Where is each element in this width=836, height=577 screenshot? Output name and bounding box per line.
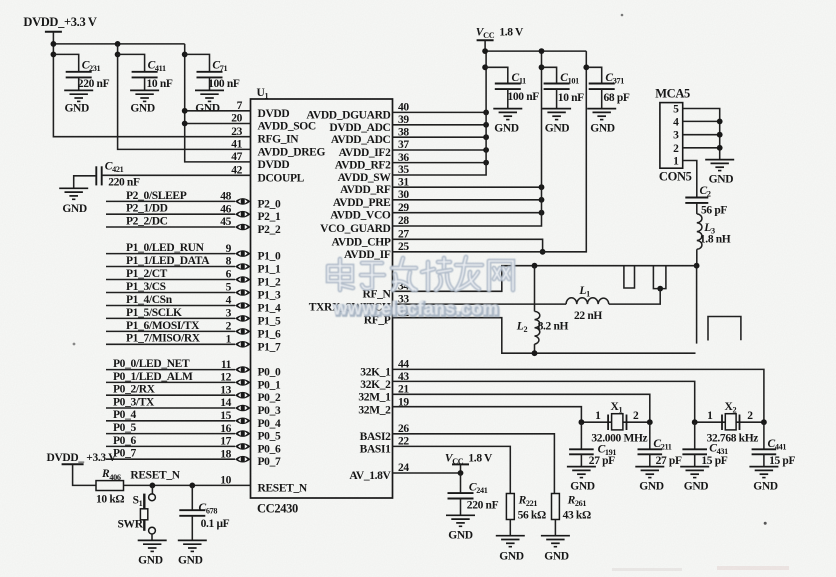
wire net P2_2/DC — [106, 226, 235, 228]
bidirectional pin arrow P1_2 — [235, 276, 251, 283]
junction C411 top lead — [115, 52, 121, 58]
capacitor C2 — [685, 198, 708, 214]
junction pin 3 — [717, 132, 723, 138]
ground under R261 — [541, 536, 570, 563]
power symbol Vcc 1.8V bar — [477, 39, 494, 41]
ground under C678 — [178, 540, 207, 566]
wire net P1_3/CS — [106, 292, 235, 294]
capacitor C421 — [96, 166, 101, 185]
ground under C101 — [542, 109, 571, 135]
junction RF node at L3 — [694, 263, 700, 269]
wire RESET_N net — [124, 484, 251, 486]
wire branch to pins 7 20 47 — [185, 44, 251, 162]
junction X1 pin 1 — [579, 419, 585, 425]
wire DVDD riser and feed to pin 23 — [53, 32, 250, 137]
bidirectional pin arrow P0_4 — [235, 418, 251, 425]
bidirectional pin arrow P2_1 — [235, 211, 251, 218]
junction rail A at C411 branch — [115, 41, 121, 47]
bidirectional pin arrow P0_7 — [235, 456, 251, 463]
scan speck — [73, 343, 76, 346]
wire switch to ground — [151, 534, 153, 540]
capacitor C231 — [53, 54, 91, 90]
junction C231 top lead — [51, 52, 57, 58]
wire net P1_7/MISO/RX — [106, 343, 235, 345]
junction Vcc rail at vertical A — [482, 48, 488, 54]
ground at C421 — [59, 188, 88, 215]
junction C371 lead on vertical C — [583, 64, 589, 70]
wire pin 25 and vertical C — [393, 51, 587, 252]
pin names AVDD right side — [306, 109, 391, 260]
wire net P0_0/LED_NET — [106, 369, 235, 371]
ground under C411 — [130, 90, 159, 114]
junction pin 27 on pin 25 wire — [540, 249, 546, 255]
junction pin 39 — [483, 122, 489, 128]
connector MCA5 CON5 — [660, 103, 683, 169]
wire CON5 pin 4 — [683, 120, 720, 122]
capacitor C241 — [448, 473, 474, 515]
bidirectional pin arrow P1_7 — [235, 341, 251, 348]
wire pin 36 — [393, 162, 487, 164]
resistor R406 — [96, 481, 124, 491]
wire net P1_2/CT — [106, 279, 235, 281]
ground under C191 — [567, 467, 596, 493]
watermark url text — [333, 299, 500, 320]
junction C101 lead on vertical B — [539, 64, 545, 70]
capacitor C411 — [118, 54, 158, 90]
wire RF_N pin 34 to top rail — [393, 266, 697, 292]
junction L2 bottom — [532, 350, 538, 356]
capacitor C191 — [569, 422, 594, 466]
junction pin 37 — [483, 147, 489, 153]
ground under R221 — [496, 536, 525, 563]
wire net P0_1/LED_ALM — [106, 381, 235, 383]
wire pin 37 — [393, 149, 487, 151]
capacitor C211 — [638, 422, 663, 466]
bidirectional pin arrow P1_6 — [235, 328, 251, 335]
wire 32K_1 pin 44 to X2 pin 2 — [393, 369, 764, 422]
bidirectional pin arrow P1_3 — [235, 289, 251, 296]
junction AV_1.8V node — [458, 470, 464, 476]
junction pin 2 — [717, 145, 723, 151]
wire C421 to pin 42 DCOUPL — [102, 174, 251, 176]
crystal X2 — [695, 414, 764, 430]
power symbol DVDD +3.3V bar at reset — [62, 463, 84, 465]
wire net P0_3/TX — [106, 407, 235, 409]
wire TXRX pin 33 to L1 — [393, 303, 567, 305]
wire net P2_0/SLEEP — [106, 200, 235, 202]
wire net P0_4 — [106, 420, 235, 422]
scan speck — [621, 14, 624, 17]
wire net P0_6 — [106, 445, 235, 447]
bidirectional pin arrow P1_5 — [235, 315, 251, 322]
resistor R261 — [552, 494, 560, 520]
junction X2 pin 2 — [761, 419, 767, 425]
wire L3 to RF node — [696, 249, 698, 265]
wire AV_1.8V pin 24 — [393, 472, 461, 474]
wire CON5 pin 1 to C2 — [683, 161, 697, 198]
wire net P0_2/RX — [106, 394, 235, 396]
wire 32M_2 pin 19 to X1 pin 1 — [393, 407, 582, 423]
bidirectional pin arrow P0_5 — [235, 430, 251, 437]
wire net P1_4/CSn — [106, 305, 235, 307]
watermark chinese characters — [328, 257, 513, 290]
bidirectional pin arrow P0_1 — [235, 379, 251, 386]
scan streak — [612, 568, 682, 571]
bidirectional pin arrow P2_2 — [235, 224, 251, 231]
wire C421 left lead to ground — [74, 176, 97, 189]
bidirectional pin arrow P1_1 — [235, 263, 251, 270]
wire to switch S1 — [151, 485, 153, 493]
wire net P2_1/DD — [106, 213, 235, 215]
junction X1 pin 2 — [647, 419, 653, 425]
bidirectional pin arrow P2_0 — [235, 198, 251, 205]
power symbol DVDD +3.3V bar — [45, 31, 62, 33]
capacitor C11 — [485, 67, 521, 108]
wire 32M_1 pin 21 to X1 pin 2 — [393, 394, 650, 422]
wire balun stub U1 shape — [624, 266, 635, 288]
scan speck — [764, 522, 767, 525]
junction Vcc rail at vertical B — [539, 48, 545, 54]
connector pin numbers 5 4 3 2 1 — [673, 104, 679, 168]
IC U1 CC2430 body — [251, 99, 393, 498]
wire RF_P pin 32 bottom rail — [393, 318, 696, 354]
junction X2 pin 1 — [692, 419, 698, 425]
wire balun stub U2 shape — [653, 266, 666, 289]
wire net P1_5/SCLK — [106, 317, 235, 319]
wire pin 35 and vertical A — [393, 51, 487, 175]
junction C11 lead on vertical A — [482, 64, 488, 70]
junction pin 4 — [717, 119, 723, 125]
junction pin 40 — [483, 110, 489, 116]
pin numbers 40 39 38 37 36 35 31 30 29 28 27 25 — [398, 102, 409, 253]
ground under C231 — [64, 90, 93, 114]
capacitor C441 — [752, 422, 777, 466]
wire pin 38 — [393, 136, 487, 138]
ground under C371 — [587, 109, 616, 135]
wire pin 29 — [393, 212, 542, 214]
wire pin 20 stub — [185, 123, 251, 125]
inductor L1 — [566, 298, 609, 304]
inductor L3 — [697, 214, 702, 249]
wire pin 27 jog down — [393, 239, 543, 252]
wire power to R406 — [73, 464, 96, 485]
ground under C241 — [446, 515, 475, 541]
bidirectional pin arrow P0_6 — [235, 443, 251, 450]
wire CON5 pin 5 to ground vertical — [683, 109, 720, 160]
wire R221 to ground — [509, 520, 511, 536]
wire CON5 pin 3 — [683, 134, 720, 136]
bidirectional pin arrow P0_0 — [235, 366, 251, 373]
ground under C71 — [195, 90, 224, 114]
ground at CON5 — [705, 160, 734, 186]
junction pin 20 stub — [182, 121, 188, 127]
wire pin 7 stub — [185, 110, 251, 112]
junction pin 36 — [483, 160, 489, 166]
wire antenna bracket shape — [708, 317, 741, 341]
wire CON5 pin 2 — [683, 147, 720, 149]
wire R261 to ground — [554, 520, 556, 536]
wire DVDD rail A — [53, 43, 184, 45]
wire pin 31 to vertical B — [393, 186, 542, 188]
wire net P0_5 — [106, 433, 235, 435]
capacitor C431 — [682, 422, 707, 466]
junction at switch S1 — [150, 483, 156, 489]
capacitor C101 — [542, 67, 570, 108]
wire Vcc riser at AV pin — [460, 464, 462, 473]
scan streak — [717, 566, 789, 570]
capacitor C71 — [185, 54, 223, 90]
ground under C441 — [749, 467, 778, 493]
junction pin 29 — [539, 210, 545, 216]
power symbol Vcc bar at AV pin — [452, 463, 469, 465]
wire BASI1 pin 22 to R221 — [393, 446, 511, 493]
wire net P1_1/LED_DATA — [106, 266, 235, 268]
wire net P1_0/LED_RUN — [106, 253, 235, 255]
capacitor C371 — [586, 67, 614, 108]
wire Vcc rail — [485, 50, 586, 52]
junction L2 top — [532, 263, 538, 269]
junction pin 30 — [539, 197, 545, 203]
bidirectional pin arrow P1_0 — [235, 250, 251, 257]
wire pin 39 — [393, 124, 487, 126]
capacitor C678 — [179, 485, 205, 540]
inductor L2 — [535, 266, 540, 354]
junction pin 7 stub — [182, 108, 188, 114]
bidirectional pin arrow P0_3 — [235, 405, 251, 412]
crystal X1 — [581, 414, 649, 430]
wire Vcc riser — [484, 40, 486, 51]
wire pin 30 — [393, 199, 542, 201]
pin names DVDD AVDD_SOC RFG_IN AVDD_DREG DVDD DCOUPL — [258, 108, 326, 185]
ground under C431 — [680, 467, 709, 493]
junction pin 38 — [483, 134, 489, 140]
junction at C678 — [189, 483, 195, 489]
junction pin 31 — [539, 184, 545, 190]
wire L1 to balun junction — [609, 289, 660, 305]
wire net P0_7 — [106, 458, 235, 460]
ground under switch S1 — [138, 540, 167, 566]
pin numbers 7 20 23 41 47 42 — [231, 100, 242, 177]
watermark chinese characters highlight — [328, 257, 513, 290]
wire antenna stub vertical — [696, 266, 698, 344]
junction balun stub U2 bottom — [657, 286, 663, 292]
wire 32K_2 pin 43 to X2 pin 1 — [393, 381, 695, 422]
junction C71 top lead — [182, 52, 188, 58]
wire pin 28 and vertical B — [393, 51, 542, 226]
junction rail A at power riser — [51, 41, 57, 47]
switch S1 SWR pushbutton — [140, 494, 155, 534]
bidirectional pin arrow P1_4 — [235, 302, 251, 309]
resistor R221 — [506, 494, 514, 520]
wire branch to pin 41 — [118, 44, 251, 149]
wire net P1_6/MOSI/TX — [106, 330, 235, 332]
wire BASI2 pin 26 to R261 — [393, 434, 555, 494]
ground under C11 — [493, 109, 522, 135]
ground under C211 — [635, 467, 664, 493]
bidirectional pin arrow P0_2 — [235, 392, 251, 399]
wire pin 40 to Vcc vertical A — [393, 111, 487, 113]
